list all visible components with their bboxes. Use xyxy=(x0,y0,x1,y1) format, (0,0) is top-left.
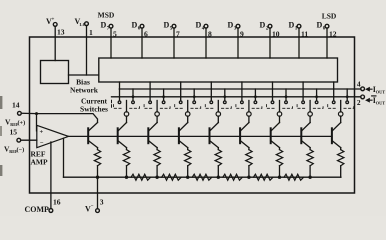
emitter resistor 2R bit 1 xyxy=(309,148,311,150)
svg-text:1: 1 xyxy=(295,26,298,32)
outer IC boundary box xyxy=(30,37,355,193)
switch transistor Q6 xyxy=(148,123,157,132)
emitter resistor 2R bit 3 xyxy=(248,148,250,150)
svg-text:(−): (−) xyxy=(17,147,25,154)
pin Vref(-) 15 xyxy=(17,138,21,142)
digital input pin D7 (pin 5) xyxy=(109,24,113,28)
digital input pin D0 (pin 12) xyxy=(325,24,329,28)
scan smudges (decorative) xyxy=(0,96,2,109)
svg-text:(+): (+) xyxy=(18,120,26,127)
digital input pin D6 (pin 6) xyxy=(140,24,144,28)
svg-text:9: 9 xyxy=(240,30,244,39)
current switch cell bit 0 xyxy=(333,82,335,101)
svg-text:6: 6 xyxy=(144,30,148,39)
svg-text:D: D xyxy=(317,21,323,30)
emitter resistor 2R bit 5 xyxy=(187,148,189,150)
current switch cell bit 6 xyxy=(149,82,151,101)
digital input pin D5 (pin 7) xyxy=(172,24,176,28)
svg-text:D: D xyxy=(164,21,170,30)
svg-text:10: 10 xyxy=(272,30,280,39)
svg-text:3: 3 xyxy=(234,26,237,32)
reference emitter resistor xyxy=(97,148,99,150)
switch transistor Q0 xyxy=(332,123,341,132)
reference transistor Qref xyxy=(88,123,97,132)
dashed box left edge xyxy=(111,100,113,108)
svg-text:5: 5 xyxy=(170,26,173,32)
common base rail from ref amp xyxy=(69,135,332,137)
svg-text:5: 5 xyxy=(113,30,117,39)
svg-text:Network: Network xyxy=(70,86,99,95)
ladder resistor R between taps xyxy=(192,174,212,180)
emitter resistor 2R bit 4 xyxy=(217,148,219,150)
svg-text:OUT: OUT xyxy=(376,100,385,105)
svg-text:+: + xyxy=(52,18,55,23)
svg-text:D: D xyxy=(260,21,266,30)
switch transistor Q4 xyxy=(210,123,219,132)
svg-text:+: + xyxy=(40,129,44,136)
Ioutbar arrow+label xyxy=(366,99,372,102)
pin Vref(+) 14 xyxy=(18,111,22,115)
svg-text:8: 8 xyxy=(208,30,212,39)
emitter resistor 2R bit 7 xyxy=(126,148,128,150)
svg-text:0: 0 xyxy=(323,26,326,32)
switch transistor Q2 xyxy=(271,123,280,132)
bias network box U-bias xyxy=(41,61,69,84)
svg-text:6: 6 xyxy=(138,26,141,32)
feedback wire from Vref(+) node to Qref collector xyxy=(37,114,98,123)
op-amp REF AMP U1 xyxy=(37,125,69,147)
wire op-amp to ladder rail xyxy=(63,138,65,177)
svg-text:7: 7 xyxy=(107,26,110,32)
svg-text:11: 11 xyxy=(301,30,308,39)
pin V+ 13 xyxy=(53,23,57,27)
emitter resistor 2R bit 2 xyxy=(279,148,281,150)
svg-text:D: D xyxy=(228,21,234,30)
emitter resistor 2R bit 0 xyxy=(340,148,342,150)
Ioutbar rail (pin 2) xyxy=(112,96,361,98)
svg-text:4: 4 xyxy=(357,80,361,89)
switch transistor Q3 xyxy=(240,123,249,132)
svg-text:3: 3 xyxy=(100,198,104,207)
switch transistor Q7 xyxy=(118,123,127,132)
pin V- 3 xyxy=(97,177,99,209)
svg-text:16: 16 xyxy=(53,198,61,207)
svg-text:4: 4 xyxy=(202,26,205,32)
svg-text:D: D xyxy=(132,21,138,30)
digital input pin D3 (pin 9) xyxy=(236,24,240,28)
current switch cell bit 1 xyxy=(302,82,304,101)
svg-text:D: D xyxy=(101,21,107,30)
current switch cell bit 3 xyxy=(241,82,243,101)
current switch cell bit 2 xyxy=(272,82,274,101)
wire bias box to driver band xyxy=(69,74,99,76)
svg-text:Switches: Switches xyxy=(80,105,108,114)
Iout rail (pin 4) xyxy=(119,88,361,90)
emitter resistor 2R bit 6 xyxy=(156,148,158,150)
svg-text:LC: LC xyxy=(80,22,86,27)
svg-text:−: − xyxy=(91,205,94,210)
pin VLC 1 xyxy=(85,22,89,26)
svg-text:13: 13 xyxy=(57,28,65,37)
digital input pin D2 (pin 10) xyxy=(268,24,272,28)
svg-text:14: 14 xyxy=(12,101,20,110)
svg-text:MSD: MSD xyxy=(98,11,115,20)
switch transistor Q5 xyxy=(179,123,188,132)
svg-text:2: 2 xyxy=(357,98,361,107)
svg-text:D: D xyxy=(289,21,295,30)
svg-text:COMP: COMP xyxy=(25,205,50,214)
current switch cell bit 4 xyxy=(210,82,212,101)
ladder resistor R between taps xyxy=(253,174,273,180)
digital input pin D4 (pin 8) xyxy=(204,24,208,28)
svg-text:7: 7 xyxy=(176,30,180,39)
pin COMP 16 xyxy=(50,142,52,209)
R-2R ladder bottom rail xyxy=(64,176,341,178)
digital input pin D1 (pin 11) xyxy=(297,24,301,28)
switch driver band rectangle xyxy=(99,58,338,82)
ladder resistor R between taps xyxy=(162,174,182,180)
ladder resistor R between taps xyxy=(284,174,304,180)
svg-text:2: 2 xyxy=(266,26,269,32)
svg-text:OUT: OUT xyxy=(376,89,385,94)
ladder resistor R between taps xyxy=(131,174,151,180)
svg-text:D: D xyxy=(196,21,202,30)
svg-text:12: 12 xyxy=(329,30,337,39)
svg-text:1: 1 xyxy=(89,28,93,37)
current switch cell bit 7 xyxy=(119,82,121,101)
current switch cell bit 5 xyxy=(180,82,182,101)
svg-text:AMP: AMP xyxy=(31,158,48,167)
svg-text:LSD: LSD xyxy=(322,12,337,21)
Iout arrow+label xyxy=(366,88,372,91)
switch transistor Q1 xyxy=(301,123,310,132)
svg-text:−: − xyxy=(40,139,44,146)
svg-text:15: 15 xyxy=(10,128,18,137)
ladder resistor R between taps xyxy=(223,174,243,180)
